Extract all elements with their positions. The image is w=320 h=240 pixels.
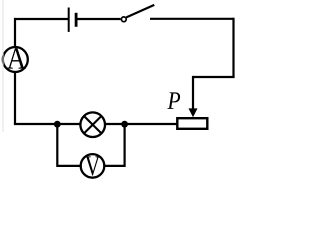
ammeter A1 letter xyxy=(7,48,26,69)
wire rheostat arrow shaft xyxy=(192,76,194,110)
rheostat P body box xyxy=(177,118,207,129)
lamp L1 circle xyxy=(80,112,105,137)
wire bottom horizontal (corner to lamp) xyxy=(14,123,81,125)
junction dot left xyxy=(54,121,61,128)
wire left vertical lower (ammeter to bottom corner) xyxy=(14,72,16,125)
faint page edge line xyxy=(2,0,4,132)
wire battery to switch xyxy=(78,18,121,20)
switch S1 lever xyxy=(126,5,154,18)
wire bottom horizontal (lamp to rheostat) xyxy=(105,123,177,125)
wire top-left horizontal to battery xyxy=(15,18,68,20)
wire jog horizontal xyxy=(193,76,235,78)
wire voltmeter branch left (down and right) xyxy=(57,124,81,166)
voltmeter V1 letter xyxy=(85,156,100,175)
wire switch to top-right corner xyxy=(150,18,234,20)
battery B1 long plate xyxy=(68,8,70,32)
rheostat label P xyxy=(167,92,180,109)
wire voltmeter branch right (right and up) xyxy=(104,124,124,166)
wire left vertical upper (corner to ammeter) xyxy=(14,18,16,48)
rheostat P arrowhead xyxy=(189,108,198,117)
wire right vertical xyxy=(232,18,234,77)
battery B1 short plate xyxy=(75,13,78,27)
lamp L1 cross xyxy=(84,116,101,133)
ammeter A1 circle xyxy=(3,47,28,72)
junction dot right xyxy=(121,121,128,128)
switch S1 pivot circle xyxy=(121,17,126,22)
voltmeter V1 circle xyxy=(81,154,105,178)
